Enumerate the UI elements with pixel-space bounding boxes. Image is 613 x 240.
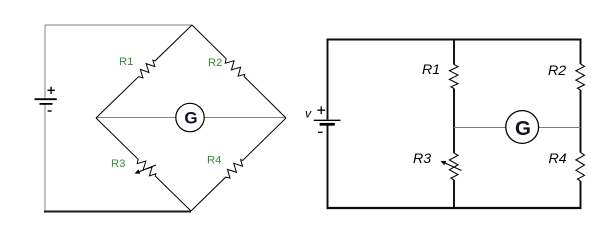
- battery V1 minus sign: [48, 110, 52, 112]
- battery v plus sign: [317, 109, 325, 111]
- wire: right circuit left edge above battery: [327, 39, 329, 120]
- resistor R3 variable (left, arm left-node to bottom-node): [96, 118, 191, 211]
- wire: middle branch top segment: [453, 39, 455, 65]
- wire: right circuit bottom edge: [327, 207, 582, 209]
- resistor R2 (right circuit): [576, 64, 585, 90]
- battery V1 (left circuit) plates: [35, 98, 57, 100]
- svg-text:R1: R1: [422, 62, 440, 78]
- svg-text:R2: R2: [548, 63, 566, 79]
- wire: right circuit top edge: [327, 39, 582, 41]
- svg-text:R4: R4: [549, 151, 567, 167]
- wire: left battery top lead: [44, 25, 46, 99]
- resistor R3 variable (right circuit): [449, 153, 458, 180]
- wire: right edge below R4: [580, 181, 582, 208]
- svg-text:R3: R3: [111, 158, 125, 170]
- wire: middle branch between R1 and R3: [453, 89, 455, 154]
- svg-text:G: G: [184, 109, 197, 128]
- wire: right edge between R2 and R4: [580, 90, 582, 153]
- wire: left circuit top horizontal: [45, 24, 192, 26]
- battery v minus sign: [318, 131, 323, 133]
- wire: middle branch below R3: [453, 180, 455, 208]
- svg-text:v: v: [305, 106, 312, 120]
- resistor R1 (left, arm left-node to top-node): [96, 25, 192, 118]
- resistor R4 (right circuit): [576, 153, 585, 182]
- galvanometer G (right circuit) circle: [506, 111, 539, 144]
- battery V1 plus sign: [48, 89, 55, 91]
- arrow of variable resistor R3 (right): [445, 163, 461, 170]
- svg-text:R2: R2: [208, 57, 222, 69]
- wire: galvanometer horizontal (left circuit): [96, 117, 286, 119]
- resistor R2 (left, arm top-node to right-node): [192, 25, 286, 118]
- svg-text:R3: R3: [413, 151, 431, 167]
- battery v (right circuit) plates: [314, 119, 341, 121]
- wire: galvanometer horizontal (right circuit): [454, 127, 581, 129]
- svg-text:G: G: [515, 117, 531, 140]
- galvanometer G (left circuit) circle: [176, 103, 204, 131]
- svg-text:R4: R4: [207, 154, 221, 166]
- arrow of variable resistor R3 (left): [139, 165, 156, 172]
- svg-text:R1: R1: [119, 56, 133, 68]
- resistor R4 (left, arm bottom-node to right-node): [191, 118, 286, 211]
- wire: left battery bottom lead: [44, 105, 46, 212]
- wire: right circuit right edge top segment: [580, 39, 582, 64]
- wire: right circuit left edge below battery: [327, 126, 329, 209]
- resistor R1 (right circuit): [449, 65, 458, 89]
- wire: left circuit bottom horizontal: [44, 211, 191, 213]
